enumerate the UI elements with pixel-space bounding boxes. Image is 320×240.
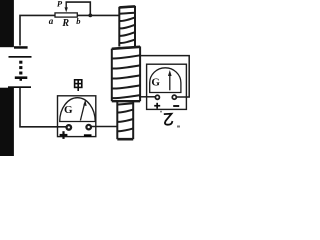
terminal circle left (yi) — [155, 95, 159, 99]
scan artifact black bar bottom-left — [0, 88, 14, 156]
coil upper narrow section (primary top) — [119, 6, 135, 47]
wire: secondary coil top to yi right terminal (over the top and down right side) — [140, 56, 190, 97]
coil lower narrow section (primary bottom) — [117, 101, 133, 139]
label yi (Chinese) below right meter — [164, 114, 173, 125]
speck artifact — [177, 126, 180, 128]
terminal circle left (jia) — [67, 125, 72, 130]
wire: secondary coil bottom to yi left terminal — [139, 96, 155, 98]
needle (jia) — [80, 103, 84, 121]
scan artifact black bar top-left — [0, 0, 14, 47]
wire: top rail from battery up-left corner to rheostat — [20, 15, 55, 45]
battery cell plate long — [9, 56, 32, 58]
plus sign (yi) — [154, 103, 160, 109]
coil wide middle section (secondary) — [112, 46, 140, 101]
label jia (Chinese) above left meter — [75, 80, 82, 91]
svg-text:R: R — [61, 18, 69, 29]
svg-text:G: G — [64, 104, 73, 116]
battery dotted cells dot 2 — [19, 66, 22, 69]
svg-text:G: G — [151, 76, 160, 88]
terminal circle right (jia) — [86, 125, 91, 130]
resistor R (rheostat body) — [55, 13, 77, 17]
speck artifact 2 — [160, 111, 162, 113]
wire: battery bottom down and right to meter jia — [20, 88, 67, 127]
needle (yi) vertical arrow — [169, 74, 171, 90]
battery dotted cells dot 3 — [19, 72, 22, 75]
slider P arrow — [65, 2, 67, 9]
battery cell plate short 2 — [15, 76, 27, 79]
svg-text:b: b — [76, 16, 80, 26]
terminal circle right (yi) — [172, 95, 176, 99]
minus sign (yi) — [173, 105, 179, 107]
battery dotted cells dot 1 — [19, 61, 22, 64]
wire: rheostat b end to junction to coil — [77, 14, 119, 16]
galvanometer yi box — [147, 64, 187, 109]
battery cell plate short (top terminal) — [14, 46, 28, 49]
meter face arch (jia) — [60, 98, 95, 122]
galvanometer jia box — [58, 96, 96, 137]
svg-text:P: P — [57, 0, 63, 8]
wire: jia right terminal to coil bottom — [91, 126, 117, 128]
meter face arch (yi) — [150, 68, 181, 93]
plus sign (jia) — [60, 131, 68, 139]
svg-text:a: a — [49, 16, 54, 26]
battery stub dot under plate — [20, 79, 23, 81]
junction node dot — [88, 14, 92, 18]
wire: slider P loop over to junction — [66, 2, 91, 14]
battery cell plate long 2 (bottom terminal) — [8, 86, 31, 88]
minus sign (jia) — [84, 134, 92, 136]
